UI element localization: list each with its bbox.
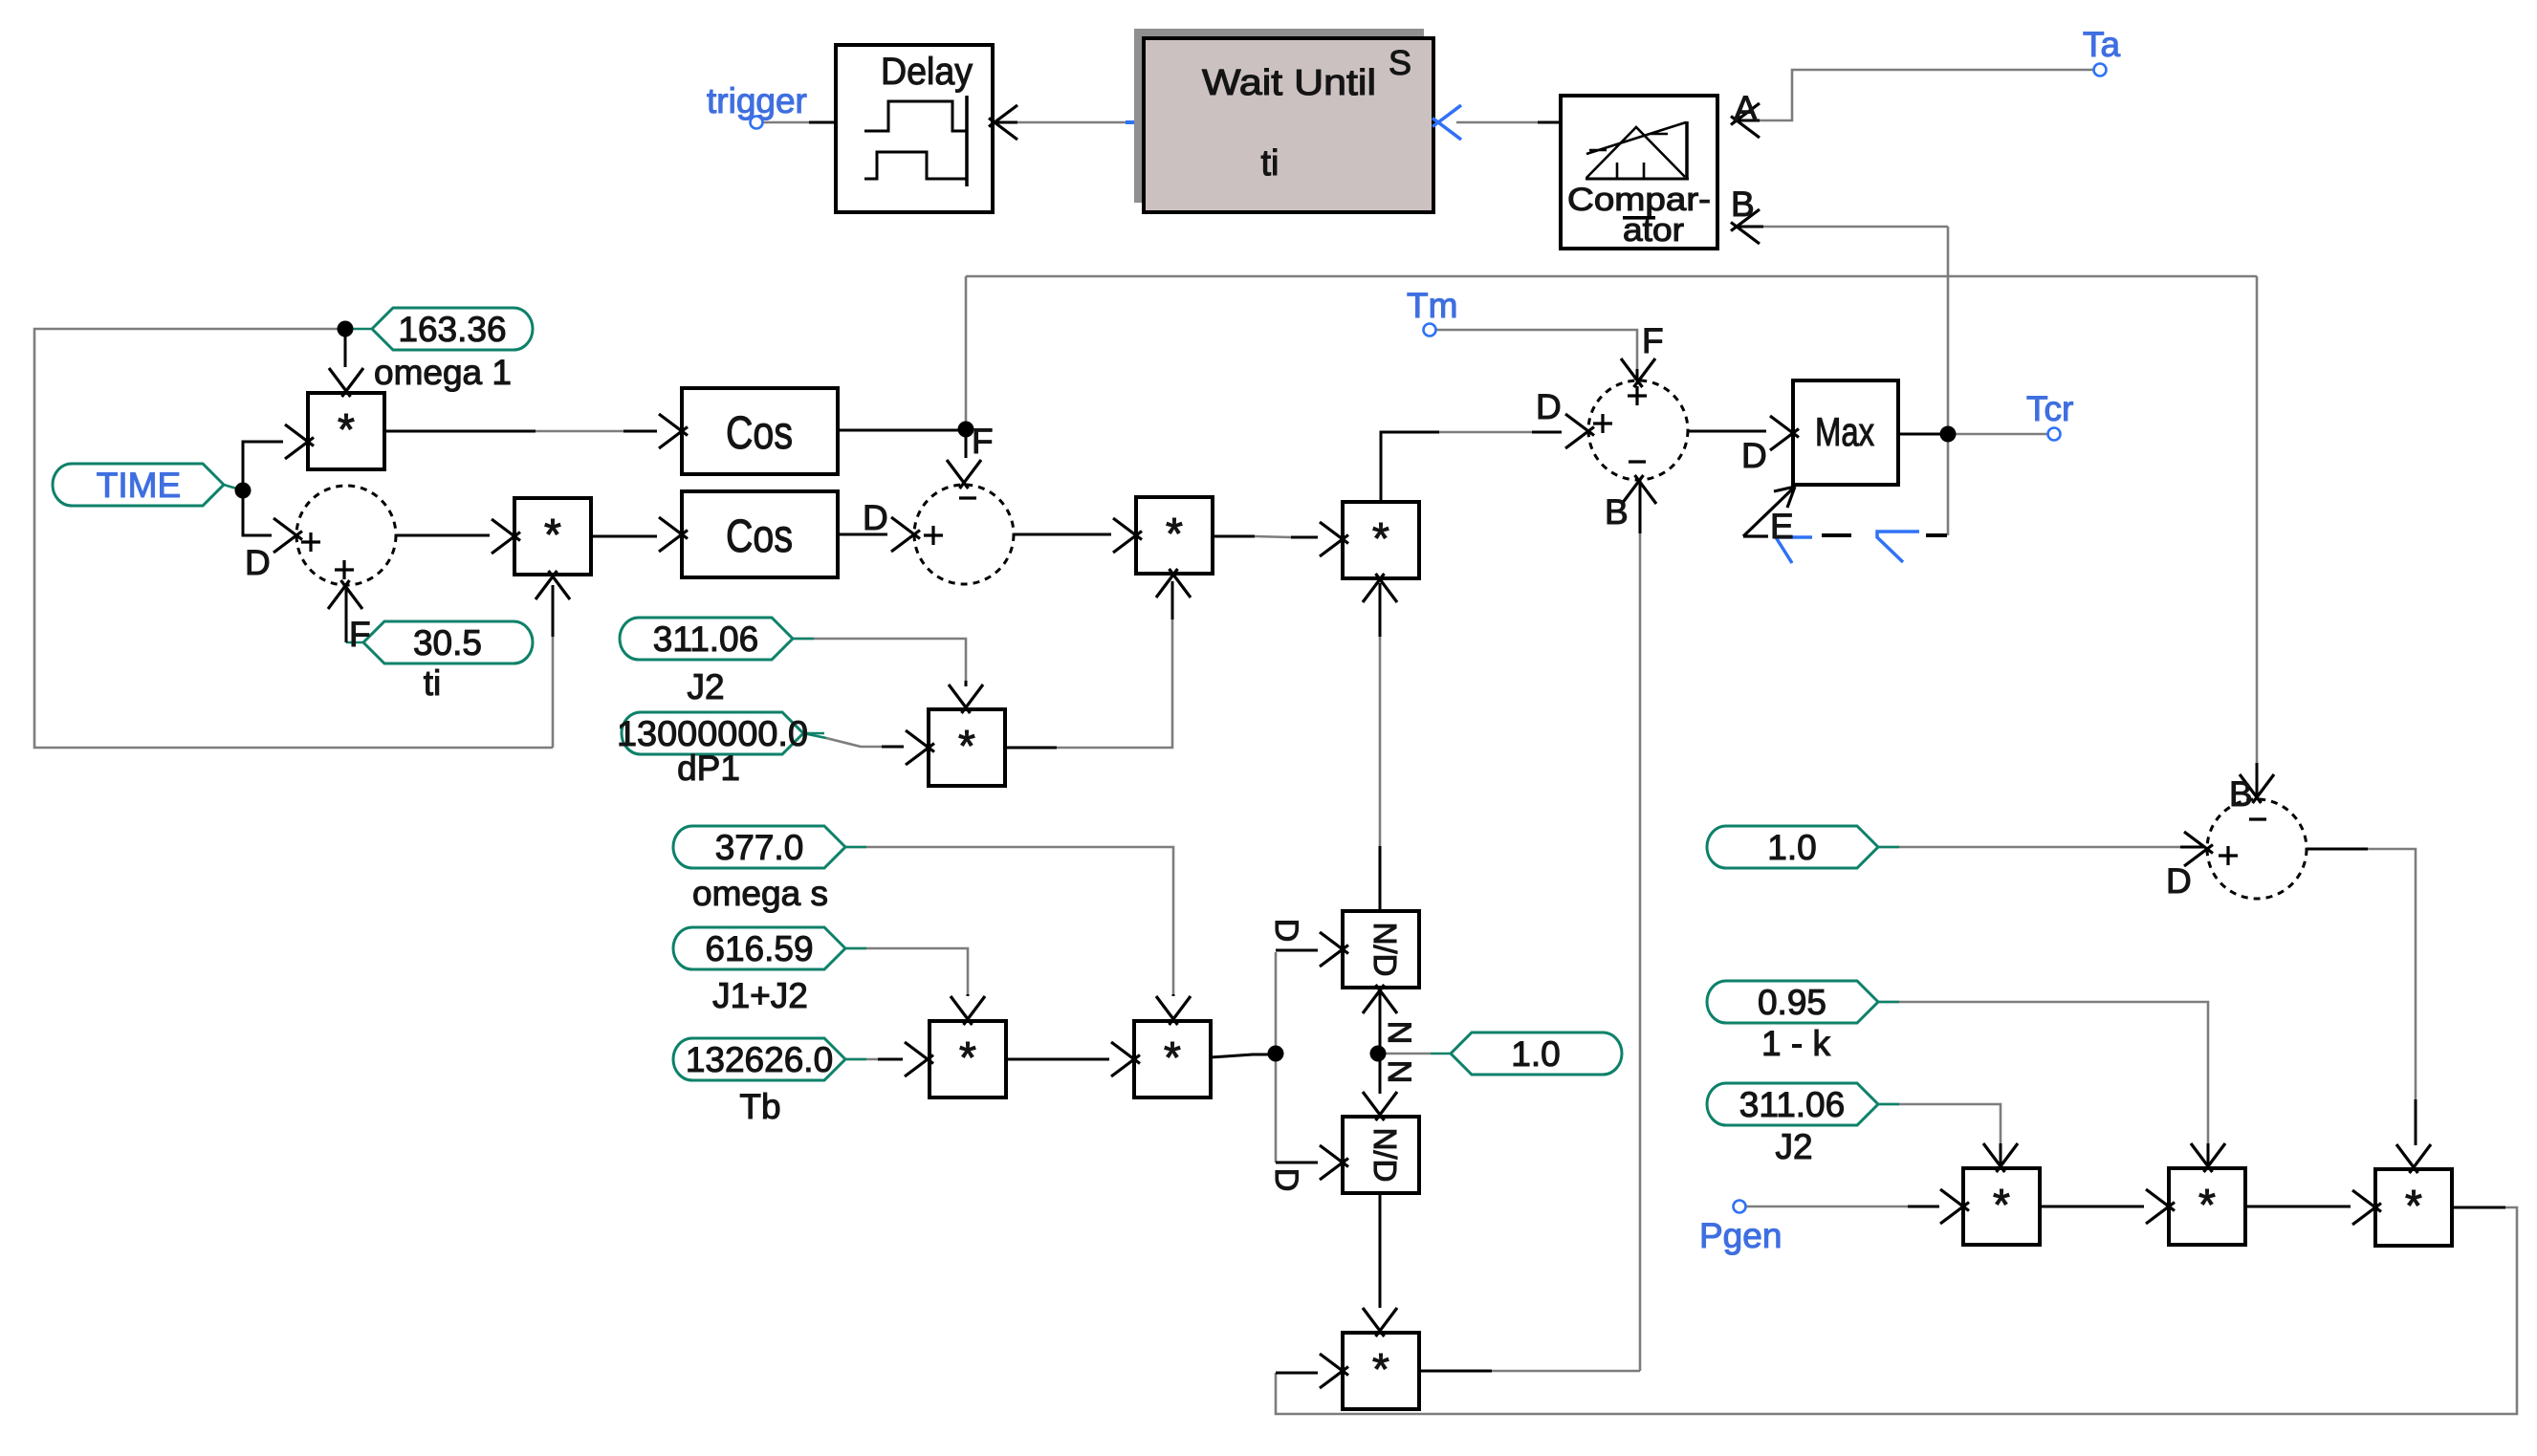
multiplier M8 <box>1963 1168 2040 1245</box>
wire 1.0 pill stub to node N <box>1380 1053 1451 1055</box>
svg-text:1.0: 1.0 <box>1511 1034 1560 1074</box>
wire J1+J2 pill to multiplier M6a top <box>845 948 968 996</box>
summing junction S4 <box>2207 799 2307 899</box>
label J2b <box>1775 1127 1812 1166</box>
variable pill 132626.0 <box>673 1038 866 1080</box>
svg-text:omega 1: omega 1 <box>374 353 512 392</box>
arrow into multiplier M1 top <box>329 368 363 397</box>
summing junction S3 <box>1588 380 1688 480</box>
wire node F to summing junction S2 top <box>965 429 968 458</box>
label omega s <box>692 874 828 913</box>
multiplier M6a <box>930 1021 1006 1097</box>
wire dP1 pill to multiplier M4 left <box>803 733 904 747</box>
svg-text:377.0: 377.0 <box>715 828 804 867</box>
wire omega 1 pill stub <box>350 328 373 331</box>
port label A Comparator <box>1734 89 1758 128</box>
arrow into divide ND1 bottom N <box>1363 985 1397 1013</box>
arrow into summing junction S2 left <box>891 517 920 552</box>
wire multiplier M5 output to summing junction S3 <box>1381 432 1562 502</box>
svg-text:dP1: dP1 <box>677 749 740 788</box>
node F junction <box>958 422 974 438</box>
svg-text:F: F <box>972 422 994 461</box>
port label E Max <box>1770 507 1794 546</box>
icon Wait Until blue input arrow <box>1433 105 1461 140</box>
label dP1 <box>677 749 740 788</box>
port label D S3 <box>1536 387 1562 426</box>
svg-text:F: F <box>1642 321 1664 360</box>
arrow into multiplier M5 bottom <box>1363 574 1397 602</box>
wire Pgen to multiplier M8 left <box>1746 1206 1939 1208</box>
arrow into multiplier M9 top <box>2191 1143 2225 1172</box>
svg-text:132626.0: 132626.0 <box>686 1040 833 1079</box>
wire Wait Until output to Delay input <box>995 121 1143 124</box>
net label Pgen <box>1699 1216 1782 1255</box>
svg-text:trigger: trigger <box>707 81 807 120</box>
wire divide ND2 output to multiplier M7 top <box>1379 1193 1382 1308</box>
arrow into summing junction S4 left <box>2184 832 2213 866</box>
label Wait Until <box>1202 63 1376 103</box>
wire multiplier M4 to multiplier M3 bottom <box>1005 581 1172 748</box>
wire multiplier M3 to multiplier M5 <box>1213 536 1318 537</box>
wire omega s pill to multiplier M6b top <box>845 847 1173 996</box>
arrow into divide ND1 left D <box>1320 932 1348 967</box>
arrow into summing junction S3 top <box>1621 359 1655 387</box>
arrow into Cos C2 <box>659 517 688 552</box>
arrow into multiplier M1 left <box>285 424 314 459</box>
svg-text:*: * <box>338 404 355 454</box>
wire Delay output to trigger connector <box>763 121 836 124</box>
variable pill 616.59 <box>673 927 866 969</box>
svg-text:*: * <box>959 1032 976 1082</box>
wire J2 pill to multiplier M4 top <box>793 639 966 686</box>
wire J2 pill to multiplier M8 top <box>1878 1104 2001 1164</box>
wire multiplier M9 to multiplier M10 <box>2245 1206 2351 1208</box>
wire summing junction S3 to Max input D <box>1688 430 1766 433</box>
arrow into summing junction S1 left <box>273 518 302 553</box>
svg-text:D: D <box>1268 1168 1304 1192</box>
block Comparator <box>1561 96 1717 249</box>
port label D Max <box>1741 436 1767 475</box>
variable pill 311.06 J2a <box>620 618 814 660</box>
svg-text:J2: J2 <box>687 667 724 706</box>
port label D ND2 rotated <box>1268 1168 1304 1192</box>
label Wait Until ti <box>1261 143 1279 184</box>
port label D S4 <box>2166 861 2192 901</box>
variable pill 1.0 mid <box>1451 1032 1622 1075</box>
svg-text:D: D <box>245 543 271 582</box>
arrow into multiplier M8 top <box>1983 1143 2018 1172</box>
svg-text:Wait Until: Wait Until <box>1202 63 1376 103</box>
svg-text:B: B <box>1605 492 1629 532</box>
label Max <box>1815 409 1874 454</box>
wire multiplier M1 to Cos C1 <box>384 430 657 433</box>
arrow into multiplier M7 top <box>1363 1308 1397 1336</box>
svg-text:0.95: 0.95 <box>1758 983 1826 1022</box>
label 1 - k <box>1761 1024 1830 1063</box>
svg-text:A: A <box>1734 89 1758 128</box>
label Comparator line2 <box>1623 212 1684 249</box>
svg-text:Pgen: Pgen <box>1699 1216 1782 1255</box>
connector Tm <box>1424 324 1436 337</box>
net label trigger <box>707 81 807 120</box>
arrow into multiplier M7 left <box>1320 1354 1348 1388</box>
svg-text:*: * <box>2405 1181 2422 1230</box>
svg-text:Delay: Delay <box>881 51 973 93</box>
connector Tcr <box>2048 428 2061 441</box>
node N junction <box>1370 1046 1387 1062</box>
wire omega 1 feedback loop to multiplier M2 bottom <box>34 329 553 748</box>
svg-text:ti: ti <box>1261 143 1279 184</box>
svg-text:J2: J2 <box>1775 1127 1812 1166</box>
block Wait Until shadow <box>1134 29 1424 203</box>
summing junction S1 <box>296 486 396 585</box>
wire Max output to node Tcr <box>1898 433 2048 436</box>
svg-text:J1+J2: J1+J2 <box>712 976 808 1015</box>
multiplier M9 <box>2169 1168 2245 1245</box>
svg-text:N/D: N/D <box>1367 923 1403 977</box>
svg-text:S: S <box>1389 43 1411 82</box>
arrow into multiplier M4 top <box>949 685 983 713</box>
svg-text:F: F <box>349 615 371 654</box>
arrow into Comparator B <box>1731 209 1760 244</box>
wire divide ND1 output to multiplier M5 bottom <box>1379 583 1382 911</box>
port label D ND1 rotated <box>1268 919 1304 943</box>
arrow into Cos C1 <box>659 414 688 448</box>
arrow into multiplier M6a top <box>951 996 985 1025</box>
wire node TIME to multiplier M1 left <box>243 442 283 490</box>
wire Cos C2 output to summing junction S2 <box>838 533 887 536</box>
label J1+J2 <box>712 976 808 1015</box>
svg-text:D: D <box>2166 861 2192 901</box>
connector trigger <box>751 117 763 129</box>
wire node Ta to Comparator input A <box>1739 70 2100 120</box>
svg-text:Cos: Cos <box>726 408 793 459</box>
svg-text:*: * <box>1164 1032 1181 1082</box>
multiplier M6b <box>1134 1021 1211 1097</box>
port label N ND2 rotated <box>1381 1060 1417 1084</box>
arrow into multiplier M8 left <box>1940 1189 1969 1224</box>
variable pill 13000000.0 <box>617 712 824 754</box>
svg-text:D: D <box>863 498 888 537</box>
net label Tcr <box>2026 389 2073 428</box>
wire multiplier M7 output to summing junction S3 bottom <box>1419 484 1640 1371</box>
wire node omega1 to multiplier M1 top <box>344 329 347 367</box>
wire multiplier M10 output feedback loop to multiplier M7 <box>1276 1207 2517 1414</box>
port label D S1 <box>245 543 271 582</box>
svg-text:N/D: N/D <box>1367 1128 1403 1183</box>
port label D S2 <box>863 498 888 537</box>
label Tb <box>739 1087 780 1126</box>
label ti <box>424 663 442 703</box>
arrow into Max D <box>1770 416 1799 450</box>
svg-text:*: * <box>1166 509 1183 558</box>
svg-text:1.0: 1.0 <box>1767 828 1816 867</box>
multiplier M5 <box>1343 502 1419 578</box>
label Comparator line1 <box>1567 182 1711 218</box>
variable pill 0.95 <box>1707 981 1899 1023</box>
svg-text:Tb: Tb <box>739 1087 780 1126</box>
wire TIME pill stub <box>224 485 243 490</box>
arrow into summing junction S4 top <box>2240 774 2274 803</box>
label Delay <box>881 51 973 93</box>
wire Comparator output to Wait Until input <box>1456 121 1562 124</box>
icon blue tab 1 on dashed wire <box>1776 537 1812 563</box>
svg-text:13000000.0: 13000000.0 <box>617 714 808 753</box>
arrow into multiplier M10 left <box>2352 1190 2381 1225</box>
svg-text:Cos: Cos <box>726 511 793 562</box>
variable pill 163.36 <box>372 308 533 350</box>
multiplier M10 <box>2375 1169 2452 1246</box>
icon Comparator graph <box>1586 121 1689 179</box>
block Delay <box>836 45 993 212</box>
variable pill 377.0 <box>673 826 866 868</box>
label Wait Until S <box>1389 43 1411 82</box>
port label F S3 <box>1642 321 1664 360</box>
wire multiplier M8 to multiplier M9 <box>2040 1206 2144 1208</box>
block Wait Until <box>1144 38 1433 212</box>
block Max <box>1793 380 1898 485</box>
multiplier M1 <box>308 393 384 469</box>
port label F S1 <box>349 615 371 654</box>
wire summing junction S4 output to multiplier M10 top <box>2307 849 2416 1145</box>
connector Pgen <box>1734 1201 1746 1213</box>
arrow into summing junction S2 top <box>947 460 981 489</box>
node ND junction <box>1268 1046 1284 1062</box>
wire Cos C1 output to node F <box>838 429 966 432</box>
net label Ta <box>2083 25 2121 64</box>
svg-text:ti: ti <box>424 663 442 703</box>
wire dashed Max E feedback <box>1822 533 1947 537</box>
svg-text:D: D <box>1741 436 1767 475</box>
arrow into Comparator A <box>1731 103 1760 138</box>
wire Tcr feedback to Comparator input B <box>1739 226 1948 228</box>
svg-text:*: * <box>2198 1180 2216 1229</box>
multiplier M3 <box>1136 497 1213 574</box>
svg-text:616.59: 616.59 <box>705 929 813 968</box>
icon blue tab 2 on dashed wire <box>1877 532 1919 562</box>
svg-text:D: D <box>1536 387 1562 426</box>
arrow into divide ND2 left D <box>1320 1145 1348 1180</box>
svg-text:Ta: Ta <box>2083 25 2121 64</box>
arrow into multiplier M6a left <box>905 1042 933 1076</box>
connector Ta <box>2094 64 2107 76</box>
svg-text:*: * <box>1372 1344 1389 1394</box>
svg-text:TIME: TIME <box>97 466 181 505</box>
svg-text:*: * <box>1993 1180 2010 1229</box>
arrow into multiplier M3 left <box>1113 518 1142 553</box>
svg-text:B: B <box>1731 185 1755 224</box>
icon Max E input arrow <box>1743 487 1795 536</box>
block Cos C1 <box>682 388 838 474</box>
node Tcr junction <box>1940 426 1957 443</box>
multiplier M2 <box>514 498 591 575</box>
net label Tm <box>1407 286 1457 325</box>
svg-text:Max: Max <box>1815 409 1874 454</box>
wire multiplier M6a to multiplier M6b <box>1006 1058 1109 1061</box>
variable pill 30.5 <box>363 621 533 663</box>
arrow into summing junction S3 left <box>1565 414 1594 448</box>
arrow into multiplier M6b top <box>1156 996 1191 1025</box>
block Cos C2 <box>682 491 838 577</box>
wire cos node to far B summing junction <box>966 276 2257 795</box>
arrow into multiplier M4 left <box>906 730 934 765</box>
arrow into multiplier M10 top <box>2396 1144 2431 1173</box>
port label B S3 <box>1605 492 1629 532</box>
wire Tb pill to multiplier M6a left <box>845 1058 903 1061</box>
svg-text:311.06: 311.06 <box>1739 1085 1845 1124</box>
divide ND2 <box>1343 1117 1419 1193</box>
wire node TIME to summing junction S1 left <box>243 490 272 535</box>
wire multiplier M2 to Cos C2 <box>591 535 657 538</box>
wire summing junction S1 to multiplier M2 <box>396 534 490 537</box>
wire Tm to summing junction S3 top <box>1436 330 1637 384</box>
node TIME junction <box>235 483 252 499</box>
svg-text:*: * <box>958 721 975 771</box>
arrow into multiplier M5 left <box>1320 522 1348 556</box>
variable pill TIME <box>53 464 224 506</box>
port label B S4 <box>2229 774 2253 814</box>
wire summing junction S2 to multiplier M3 <box>1014 533 1111 536</box>
label Cos C1 <box>726 408 793 459</box>
icon Delay pulses <box>864 96 967 186</box>
variable pill 311.06 J2b <box>1707 1083 1899 1125</box>
wire multiplier M6b output to node ND <box>1211 1054 1268 1057</box>
arrow into multiplier M3 bottom <box>1156 569 1191 598</box>
svg-text:D: D <box>1268 919 1304 943</box>
multiplier M4 <box>929 709 1005 786</box>
wire 0.95 pill to multiplier M9 top <box>1878 1002 2208 1164</box>
svg-text:*: * <box>1372 513 1389 563</box>
arrow into Delay right <box>989 105 1017 140</box>
svg-text:*: * <box>544 510 561 559</box>
arrow into multiplier M2 left <box>492 519 520 554</box>
label omega 1 <box>374 353 512 392</box>
node omega1 junction <box>338 321 354 337</box>
svg-text:Tcr: Tcr <box>2026 389 2073 428</box>
svg-text:N: N <box>1381 1021 1417 1045</box>
summing junction S2 <box>914 485 1014 584</box>
arrow into divide ND2 top N <box>1363 1092 1397 1120</box>
label J2a <box>687 667 724 706</box>
svg-text:N: N <box>1381 1060 1417 1084</box>
divide ND1 <box>1343 911 1419 988</box>
arrow into multiplier M9 left <box>2146 1189 2175 1224</box>
svg-text:B: B <box>2229 774 2253 814</box>
variable pill 1.0 right <box>1707 826 1899 868</box>
port label N ND1 rotated <box>1381 1021 1417 1045</box>
wire N line between divides <box>1379 992 1382 1094</box>
arrow into summing junction S3 bottom <box>1622 475 1656 504</box>
svg-text:1 - k: 1 - k <box>1761 1024 1830 1063</box>
wire node ND to divide ND2 input D <box>1276 1054 1318 1163</box>
wire 1.0 pill to summing junction S4 left <box>1878 846 2203 849</box>
arrow into multiplier M6b left <box>1111 1042 1140 1076</box>
svg-text:Tm: Tm <box>1407 286 1457 325</box>
wire ti pill to summing junction S1 bottom <box>346 589 363 642</box>
svg-text:omega s: omega s <box>692 874 828 913</box>
port label B Comparator <box>1731 185 1755 224</box>
svg-text:30.5: 30.5 <box>413 623 482 663</box>
arrow into summing junction S1 bottom <box>328 580 362 609</box>
arrow into multiplier M2 bottom <box>536 571 570 599</box>
svg-text:163.36: 163.36 <box>398 310 506 349</box>
svg-text:311.06: 311.06 <box>653 619 758 659</box>
label Cos C2 <box>726 511 793 562</box>
multiplier M7 <box>1343 1333 1419 1409</box>
wire Tcr feedback vertical <box>1947 227 1950 535</box>
wire node ND to divide ND1 input D <box>1276 950 1318 1054</box>
svg-text:E: E <box>1770 507 1794 546</box>
port label F S2 <box>972 422 994 461</box>
